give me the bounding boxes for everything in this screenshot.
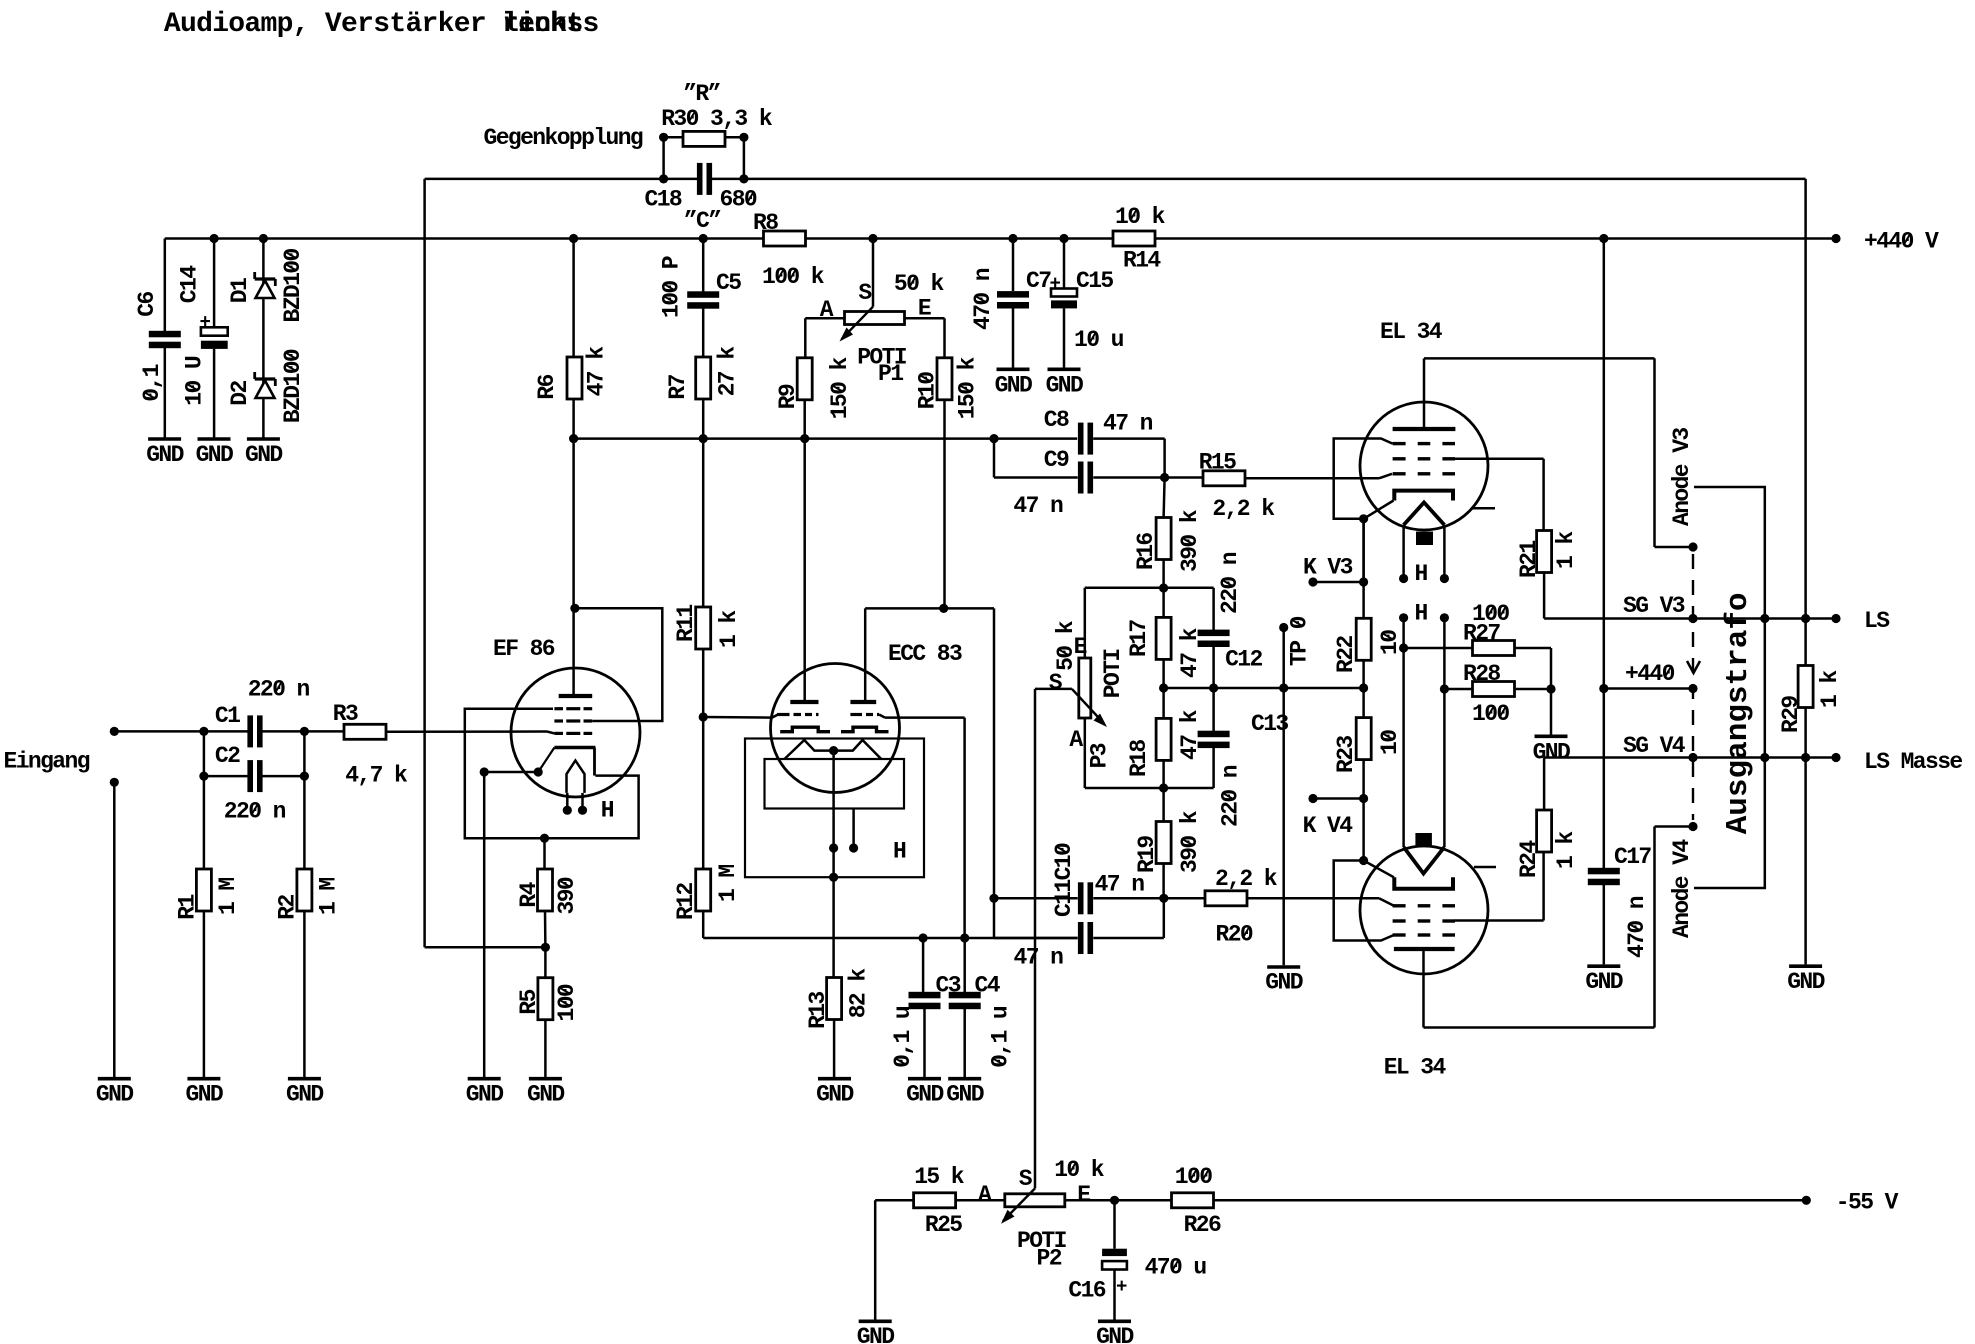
svg-text:GND: GND xyxy=(995,372,1032,398)
svg-text:POTI: POTI xyxy=(1100,649,1126,699)
svg-text:100: 100 xyxy=(1472,701,1509,727)
svg-text:27 k: 27 k xyxy=(715,346,741,397)
svg-text:D1: D1 xyxy=(227,278,253,303)
svg-text:R4: R4 xyxy=(516,881,542,907)
svg-text:EF 86: EF 86 xyxy=(493,636,555,662)
svg-text:390 k: 390 k xyxy=(1177,509,1203,572)
svg-text:1 M: 1 M xyxy=(715,865,741,902)
svg-text:150 k: 150 k xyxy=(955,356,981,419)
svg-text:R16: R16 xyxy=(1133,533,1159,570)
svg-text:GND: GND xyxy=(96,1082,133,1108)
svg-text:Eingang: Eingang xyxy=(4,749,90,775)
svg-text:+: + xyxy=(1116,1276,1127,1298)
svg-text:R14: R14 xyxy=(1123,248,1161,274)
svg-text:GND: GND xyxy=(906,1082,943,1108)
svg-text:47 n: 47 n xyxy=(1014,944,1064,970)
svg-text:GND: GND xyxy=(186,1082,223,1108)
svg-text:E: E xyxy=(1077,1182,1090,1208)
svg-text:GND: GND xyxy=(1533,740,1570,766)
svg-text:R19: R19 xyxy=(1134,836,1160,873)
svg-text:390: 390 xyxy=(554,877,580,914)
svg-text:R9: R9 xyxy=(775,384,801,409)
svg-text:Anode V3: Anode V3 xyxy=(1669,428,1695,526)
svg-text:R6: R6 xyxy=(534,374,560,399)
svg-text:680: 680 xyxy=(720,187,757,213)
svg-text:C11C10: C11C10 xyxy=(1051,843,1077,917)
svg-text:1 k: 1 k xyxy=(1553,531,1579,569)
svg-text:47 n: 47 n xyxy=(1103,411,1153,437)
svg-text:C1: C1 xyxy=(215,703,240,729)
svg-text:R18: R18 xyxy=(1126,740,1152,777)
svg-text:+: + xyxy=(1050,273,1061,295)
svg-text:C15: C15 xyxy=(1076,268,1113,294)
svg-text:15 k: 15 k xyxy=(914,1164,965,1190)
svg-text:GND: GND xyxy=(245,442,282,468)
svg-text:R27: R27 xyxy=(1463,621,1500,647)
svg-text:P2: P2 xyxy=(1037,1246,1062,1272)
svg-text:GND: GND xyxy=(1046,372,1083,398)
svg-text:C7: C7 xyxy=(1026,268,1051,294)
svg-text:+: + xyxy=(200,312,211,334)
svg-text:GND: GND xyxy=(286,1082,323,1108)
svg-text:47 k: 47 k xyxy=(583,346,609,397)
svg-text:50 k: 50 k xyxy=(894,271,945,297)
svg-text:+440 V: +440 V xyxy=(1864,229,1939,255)
svg-text:0,1 u: 0,1 u xyxy=(890,1006,916,1068)
svg-text:R3: R3 xyxy=(333,701,358,727)
svg-text:Anode V4: Anode V4 xyxy=(1669,839,1695,938)
svg-text:C4: C4 xyxy=(975,973,1001,999)
svg-text:10 k: 10 k xyxy=(1054,1157,1105,1183)
svg-text:10 u: 10 u xyxy=(1074,327,1124,353)
svg-text:82 k: 82 k xyxy=(846,968,872,1019)
svg-text:S: S xyxy=(1049,670,1063,696)
svg-text:GND: GND xyxy=(466,1082,503,1108)
svg-text:1 k: 1 k xyxy=(1553,831,1579,869)
svg-text:SG V3: SG V3 xyxy=(1623,593,1685,619)
svg-text:1 M: 1 M xyxy=(215,878,241,915)
svg-text:”R”: ”R” xyxy=(683,81,720,107)
svg-text:1 k: 1 k xyxy=(1817,670,1843,708)
svg-text:2,2 k: 2,2 k xyxy=(1212,496,1275,522)
svg-text:A: A xyxy=(1069,727,1083,753)
svg-text:EL 34: EL 34 xyxy=(1384,1054,1447,1080)
svg-text:10 U: 10 U xyxy=(182,356,208,406)
svg-text:R2: R2 xyxy=(274,894,300,919)
svg-text:C17: C17 xyxy=(1614,844,1651,870)
svg-text:1 M: 1 M xyxy=(316,878,342,915)
svg-text:Gegenkopplung: Gegenkopplung xyxy=(484,125,643,151)
svg-text:R1: R1 xyxy=(174,894,200,919)
svg-text:C18: C18 xyxy=(645,187,682,213)
svg-text:D2: D2 xyxy=(227,380,253,405)
svg-text:R22: R22 xyxy=(1333,636,1359,673)
svg-text:220 n: 220 n xyxy=(1217,552,1243,614)
svg-text:”C”: ”C” xyxy=(684,208,721,234)
svg-text:Ausgangstrafo: Ausgangstrafo xyxy=(1721,592,1756,834)
svg-text:GND: GND xyxy=(1096,1324,1133,1344)
svg-text:10 k: 10 k xyxy=(1115,204,1166,230)
svg-text:R28: R28 xyxy=(1463,661,1500,687)
svg-text:220 n: 220 n xyxy=(248,676,310,702)
svg-text:R21: R21 xyxy=(1516,541,1542,578)
svg-text:S: S xyxy=(858,280,872,306)
svg-text:H: H xyxy=(1415,601,1428,627)
svg-text:220 n: 220 n xyxy=(1218,765,1244,827)
svg-text:BZD100: BZD100 xyxy=(280,248,306,322)
svg-text:R10: R10 xyxy=(915,372,941,409)
svg-text:R25: R25 xyxy=(925,1212,962,1238)
svg-text:GND: GND xyxy=(196,442,233,468)
svg-text:H: H xyxy=(893,839,906,865)
svg-text:P3: P3 xyxy=(1086,743,1112,768)
svg-text:A: A xyxy=(820,297,834,323)
svg-text:R12: R12 xyxy=(673,883,699,920)
svg-text:C9: C9 xyxy=(1044,447,1069,473)
svg-text:470 u: 470 u xyxy=(1145,1255,1207,1281)
svg-text:R26: R26 xyxy=(1184,1212,1221,1238)
svg-text:K V4: K V4 xyxy=(1303,813,1354,839)
svg-text:rechts: rechts xyxy=(502,9,599,40)
svg-text:0,1 u: 0,1 u xyxy=(987,1006,1013,1068)
svg-text:C2: C2 xyxy=(215,743,240,769)
svg-text:C8: C8 xyxy=(1044,407,1069,433)
svg-text:-55 V: -55 V xyxy=(1836,1190,1899,1216)
svg-text:H: H xyxy=(1415,561,1428,587)
svg-text:GND: GND xyxy=(857,1324,894,1344)
svg-text:A: A xyxy=(978,1182,992,1208)
svg-text:C14: C14 xyxy=(177,265,203,303)
svg-text:R8: R8 xyxy=(753,210,778,236)
svg-text:47 n: 47 n xyxy=(1013,493,1063,519)
svg-text:GND: GND xyxy=(527,1082,564,1108)
svg-text:470 n: 470 n xyxy=(1624,896,1650,958)
svg-text:100 P: 100 P xyxy=(659,256,685,318)
svg-text:100 k: 100 k xyxy=(762,264,825,290)
svg-text:R13: R13 xyxy=(805,991,831,1028)
svg-text:10: 10 xyxy=(1377,630,1403,655)
svg-text:R24: R24 xyxy=(1516,840,1542,878)
svg-text:EL 34: EL 34 xyxy=(1380,319,1443,345)
svg-text:R15: R15 xyxy=(1199,450,1236,476)
svg-text:P1: P1 xyxy=(878,361,903,387)
svg-text:H: H xyxy=(601,798,614,824)
svg-text:GND: GND xyxy=(1585,969,1622,995)
svg-text:K V3: K V3 xyxy=(1303,555,1353,581)
svg-text:R11: R11 xyxy=(673,605,699,642)
svg-text:R23: R23 xyxy=(1333,736,1359,773)
svg-text:BZD100: BZD100 xyxy=(280,349,306,423)
svg-text:470 n: 470 n xyxy=(970,268,996,330)
svg-text:LS Masse: LS Masse xyxy=(1864,749,1962,775)
svg-text:E: E xyxy=(1074,634,1087,660)
svg-text:R7: R7 xyxy=(665,374,691,399)
svg-text:R20: R20 xyxy=(1216,921,1253,947)
svg-text:C5: C5 xyxy=(716,270,741,296)
svg-text:100: 100 xyxy=(554,984,580,1021)
svg-text:GND: GND xyxy=(1787,969,1824,995)
svg-text:R5: R5 xyxy=(516,989,542,1014)
svg-text:C3: C3 xyxy=(936,973,961,999)
svg-text:220 n: 220 n xyxy=(224,799,286,825)
svg-text:S: S xyxy=(1019,1166,1033,1192)
svg-text:100: 100 xyxy=(1175,1164,1212,1190)
svg-text:R29: R29 xyxy=(1778,696,1804,733)
svg-text:GND: GND xyxy=(816,1082,853,1108)
svg-text:SG V4: SG V4 xyxy=(1623,733,1686,759)
svg-text:E: E xyxy=(918,295,931,321)
svg-text:GND: GND xyxy=(146,442,183,468)
svg-text:GND: GND xyxy=(1265,969,1302,995)
svg-text:GND: GND xyxy=(946,1082,983,1108)
svg-text:150 k: 150 k xyxy=(827,356,853,419)
svg-text:47 n: 47 n xyxy=(1095,871,1145,897)
svg-text:390 k: 390 k xyxy=(1177,810,1203,873)
svg-text:C6: C6 xyxy=(134,291,160,316)
svg-text:R30 3,3 k: R30 3,3 k xyxy=(661,106,773,132)
svg-text:C16: C16 xyxy=(1068,1278,1105,1304)
svg-text:C12: C12 xyxy=(1225,647,1262,673)
svg-text:1 k: 1 k xyxy=(716,610,742,648)
svg-text:10: 10 xyxy=(1377,730,1403,755)
svg-text:LS: LS xyxy=(1864,608,1890,634)
svg-text:4,7 k: 4,7 k xyxy=(345,762,408,788)
svg-text:2,2 k: 2,2 k xyxy=(1215,866,1278,892)
svg-text:R17: R17 xyxy=(1126,620,1152,657)
svg-text:ECC 83: ECC 83 xyxy=(888,641,962,667)
